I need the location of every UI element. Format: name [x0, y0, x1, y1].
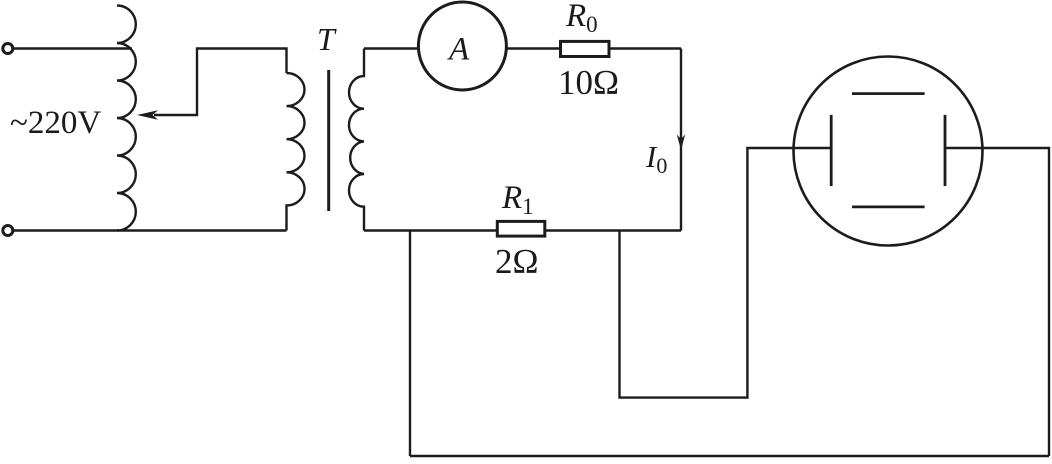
resistor R1 box: [497, 221, 545, 236]
svg-text:2Ω: 2Ω: [495, 242, 539, 281]
svg-text:10Ω: 10Ω: [558, 63, 619, 102]
autotransformer (variac) winding: [117, 6, 136, 231]
wire: secondary top to ammeter and R0: [364, 47, 681, 49]
arrowhead: wiper: [137, 110, 158, 120]
tube left plate: [830, 115, 833, 186]
vacuum tube envelope: [794, 57, 983, 246]
wire: drop from bottom wire to bottom rail (left): [409, 231, 411, 457]
wire: right vertical with I0: [680, 49, 682, 231]
tube bottom electrode: [852, 205, 925, 208]
terminal top: [3, 44, 13, 54]
svg-text:~220V: ~220V: [10, 105, 101, 141]
arrowhead: I0 current direction: [677, 135, 685, 151]
svg-text:T: T: [317, 21, 337, 57]
transformer core: [327, 70, 330, 211]
wire: tube left plate loop to bottom wire: [620, 148, 832, 398]
wire: right riser to tube right plate: [945, 148, 1049, 456]
tube right plate: [944, 115, 947, 186]
wire: secondary bottom through R1: [364, 229, 681, 231]
wire: bottom rail: [410, 455, 1049, 457]
svg-text:A: A: [447, 32, 470, 68]
tube top electrode: [852, 92, 925, 95]
ammeter A: [418, 2, 506, 90]
transformer secondary coil: [349, 49, 364, 231]
wire: wiper arm to transformer primary: [154, 49, 287, 116]
wire: top terminal to variac tap: [13, 47, 132, 49]
terminal bottom: [3, 226, 13, 236]
resistor R0 box: [561, 41, 610, 56]
wire: bottom terminal to transformer primary bottom: [13, 229, 287, 231]
transformer primary coil: [287, 73, 305, 231]
